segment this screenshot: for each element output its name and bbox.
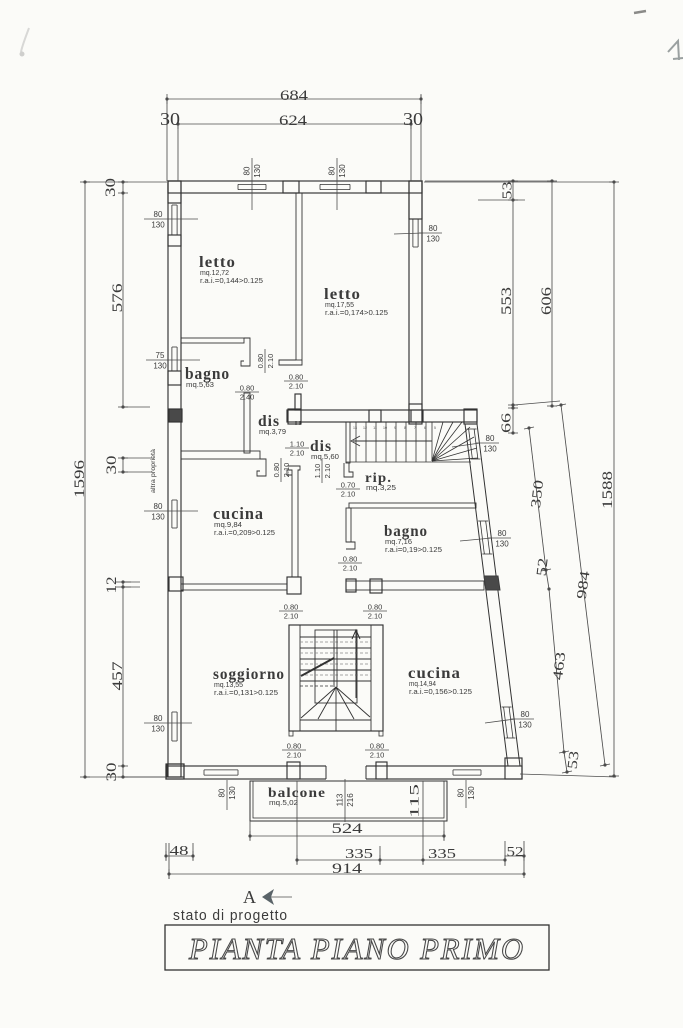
svg-text:9: 9 (394, 426, 396, 430)
svg-text:r.a.i.=0,156>0.125: r.a.i.=0,156>0.125 (409, 687, 472, 696)
svg-text:524: 524 (332, 821, 364, 837)
svg-text:mq.3,25: mq.3,25 (366, 483, 396, 492)
svg-text:130: 130 (151, 221, 165, 230)
svg-text:8: 8 (404, 426, 406, 430)
svg-text:0.80: 0.80 (240, 384, 255, 393)
svg-text:A: A (243, 887, 256, 907)
svg-text:2.40: 2.40 (240, 393, 255, 402)
svg-text:10: 10 (383, 426, 387, 430)
svg-text:113: 113 (336, 793, 345, 806)
svg-text:335: 335 (428, 847, 456, 862)
svg-text:684: 684 (280, 88, 309, 104)
svg-text:2.10: 2.10 (341, 490, 356, 499)
svg-text:130: 130 (483, 445, 497, 454)
svg-text:2.10: 2.10 (284, 612, 299, 621)
svg-text:r.a.i.=0,144>0.125: r.a.i.=0,144>0.125 (200, 276, 263, 285)
svg-text:30: 30 (160, 109, 180, 129)
svg-text:2.10: 2.10 (368, 612, 383, 621)
svg-text:130: 130 (153, 362, 167, 371)
svg-text:66: 66 (500, 413, 515, 433)
svg-text:80: 80 (243, 166, 252, 175)
svg-text:0.80: 0.80 (289, 373, 304, 382)
svg-text:80: 80 (154, 502, 163, 511)
svg-text:80: 80 (486, 434, 495, 443)
svg-text:1588: 1588 (600, 471, 616, 509)
svg-text:52: 52 (535, 557, 552, 577)
svg-text:0.80: 0.80 (284, 603, 299, 612)
svg-text:553: 553 (499, 287, 515, 315)
svg-text:130: 130 (151, 513, 165, 522)
svg-text:2.10: 2.10 (323, 464, 332, 479)
svg-text:2.10: 2.10 (266, 354, 275, 369)
svg-text:11: 11 (373, 426, 377, 430)
svg-text:2.10: 2.10 (289, 382, 304, 391)
svg-text:7: 7 (414, 426, 416, 430)
svg-text:0.80: 0.80 (368, 603, 383, 612)
svg-text:606: 606 (539, 286, 555, 315)
svg-text:1.10: 1.10 (313, 464, 322, 479)
svg-text:6: 6 (424, 426, 426, 430)
svg-text:130: 130 (426, 235, 440, 244)
svg-text:75: 75 (156, 351, 165, 360)
svg-text:2.10: 2.10 (290, 449, 305, 458)
svg-text:5: 5 (434, 426, 436, 430)
svg-text:0.80: 0.80 (370, 742, 385, 751)
svg-text:30: 30 (104, 763, 120, 782)
svg-text:r.a.i.=0,131>0.125: r.a.i.=0,131>0.125 (214, 688, 278, 697)
svg-text:0.80: 0.80 (272, 463, 281, 478)
svg-text:30: 30 (403, 109, 423, 129)
svg-text:130: 130 (518, 721, 532, 730)
svg-text:80: 80 (328, 166, 337, 175)
svg-text:altra proprietà: altra proprietà (150, 449, 157, 493)
svg-text:0.80: 0.80 (256, 354, 265, 369)
svg-text:mq.5,63: mq.5,63 (186, 380, 214, 389)
svg-text:80: 80 (154, 210, 163, 219)
svg-text:53: 53 (501, 182, 516, 200)
svg-text:624: 624 (279, 113, 308, 129)
svg-text:2.10: 2.10 (343, 564, 358, 573)
svg-text:mq.5,60: mq.5,60 (311, 452, 339, 461)
svg-text:130: 130 (495, 540, 509, 549)
svg-text:12: 12 (363, 426, 367, 430)
svg-text:0.80: 0.80 (343, 555, 358, 564)
svg-text:2.10: 2.10 (287, 751, 302, 760)
svg-text:r.a.i.=0,174>0.125: r.a.i.=0,174>0.125 (325, 308, 388, 317)
svg-text:30: 30 (103, 178, 119, 197)
svg-text:r.a.i.=0,209>0.125: r.a.i.=0,209>0.125 (214, 528, 275, 537)
svg-text:80: 80 (218, 788, 227, 797)
svg-text:130: 130 (467, 786, 476, 800)
svg-text:2.10: 2.10 (370, 751, 385, 760)
svg-text:216: 216 (346, 793, 355, 807)
svg-text:stato di progetto: stato di progetto (173, 908, 288, 924)
svg-text:53: 53 (566, 750, 583, 770)
svg-text:mq.3,79: mq.3,79 (259, 427, 286, 436)
svg-text:2.10: 2.10 (282, 463, 291, 478)
svg-text:130: 130 (338, 164, 347, 178)
svg-text:48: 48 (170, 844, 189, 859)
svg-text:13: 13 (353, 426, 357, 430)
svg-text:PIANTA PIANO PRIMO: PIANTA PIANO PRIMO (188, 931, 525, 966)
svg-text:12: 12 (104, 577, 120, 594)
svg-text:115: 115 (406, 784, 421, 818)
svg-text:0.70: 0.70 (341, 481, 356, 490)
svg-text:130: 130 (253, 164, 262, 178)
svg-text:80: 80 (154, 714, 163, 723)
svg-text:1596: 1596 (72, 459, 88, 498)
svg-text:335: 335 (345, 847, 373, 862)
svg-text:mq.5,02: mq.5,02 (269, 798, 298, 807)
svg-text:130: 130 (228, 786, 237, 800)
svg-text:80: 80 (498, 529, 507, 538)
svg-text:0.80: 0.80 (287, 742, 302, 751)
svg-text:80: 80 (429, 224, 438, 233)
svg-text:457: 457 (110, 661, 126, 691)
svg-text:52: 52 (507, 845, 524, 860)
svg-text:80: 80 (457, 788, 466, 797)
svg-text:130: 130 (151, 725, 165, 734)
svg-text:1.10: 1.10 (290, 440, 305, 449)
svg-text:30: 30 (104, 456, 120, 475)
svg-text:576: 576 (110, 283, 126, 313)
svg-text:r.a.i=0,19>0.125: r.a.i=0,19>0.125 (385, 545, 442, 554)
svg-text:914: 914 (332, 861, 363, 877)
svg-text:80: 80 (521, 710, 530, 719)
